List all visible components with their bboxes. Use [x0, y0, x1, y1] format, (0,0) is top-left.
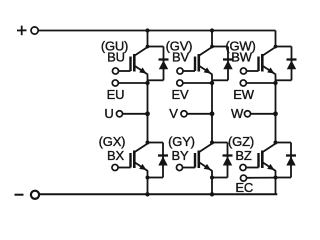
svg-text:BU: BU — [107, 49, 125, 64]
svg-text:EV: EV — [172, 87, 189, 102]
svg-text:BX: BX — [107, 148, 124, 163]
svg-text:(GY): (GY) — [168, 134, 195, 149]
svg-text:BV: BV — [172, 49, 189, 64]
svg-text:W: W — [231, 106, 244, 121]
svg-text:BY: BY — [172, 148, 189, 163]
svg-text:V: V — [169, 106, 178, 121]
svg-text:BW: BW — [231, 49, 252, 64]
svg-text:EC: EC — [235, 180, 253, 195]
svg-text:EU: EU — [107, 87, 125, 102]
svg-text:(GX): (GX) — [99, 134, 126, 149]
svg-text:EW: EW — [233, 87, 254, 102]
svg-text:BZ: BZ — [235, 148, 251, 163]
svg-text:U: U — [104, 106, 113, 121]
svg-text:(GZ): (GZ) — [228, 134, 254, 149]
